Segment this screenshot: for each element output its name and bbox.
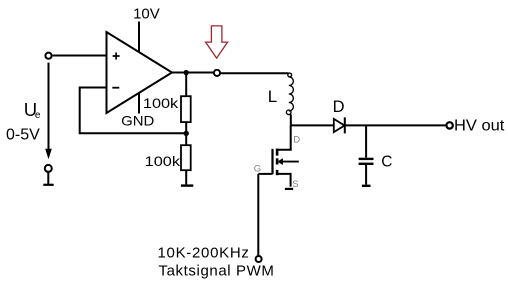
svg-text:10K-200KHz: 10K-200KHz — [158, 244, 250, 261]
svg-text:GND: GND — [121, 112, 154, 128]
svg-text:C: C — [381, 153, 392, 170]
svg-text:D: D — [333, 98, 345, 116]
svg-text:100k: 100k — [145, 153, 181, 169]
svg-text:L: L — [268, 87, 277, 106]
svg-text:100k: 100k — [143, 95, 179, 111]
svg-text:D: D — [293, 135, 300, 146]
svg-text:HV out: HV out — [454, 117, 505, 134]
svg-text:10V: 10V — [133, 5, 160, 22]
svg-text:e: e — [35, 110, 41, 121]
svg-text:Taktsignal PWM: Taktsignal PWM — [159, 263, 275, 280]
svg-text:G: G — [254, 164, 261, 175]
svg-text:0-5V: 0-5V — [6, 126, 40, 143]
svg-text:S: S — [292, 179, 298, 190]
